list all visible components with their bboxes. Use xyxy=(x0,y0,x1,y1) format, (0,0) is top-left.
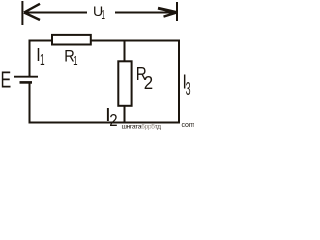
wire: bottom side xyxy=(29,122,181,124)
svg-text:2: 2 xyxy=(109,111,117,130)
svg-text:1: 1 xyxy=(40,51,44,69)
arrowhead right (points right to tick) xyxy=(158,8,176,16)
svg-text:2: 2 xyxy=(144,72,153,93)
svg-text:1: 1 xyxy=(73,54,77,69)
wire: left side above battery xyxy=(29,40,31,77)
dimension tick right xyxy=(176,2,178,21)
wire: right side xyxy=(178,40,180,124)
svg-text:1: 1 xyxy=(102,9,105,23)
resistor R1 body xyxy=(52,35,91,45)
battery E long plate xyxy=(14,76,38,78)
dimension tick left xyxy=(21,1,23,25)
resistor R2 body xyxy=(118,61,131,106)
svg-text:шнгата6рр5тд: шнгата6рр5тд xyxy=(122,123,162,130)
wire: top side xyxy=(29,40,181,42)
wire: middle branch lower stub xyxy=(124,105,126,122)
arrowhead left (points left to tick) xyxy=(24,4,40,20)
wire: left side below battery xyxy=(29,83,31,123)
svg-text:3: 3 xyxy=(186,80,191,100)
dimension line right segment xyxy=(115,12,176,14)
wire: middle branch upper stub xyxy=(124,40,126,62)
dimension line left segment xyxy=(24,12,87,14)
svg-text:com: com xyxy=(182,122,195,129)
svg-text:E: E xyxy=(1,68,12,93)
battery E short plate xyxy=(20,81,33,84)
